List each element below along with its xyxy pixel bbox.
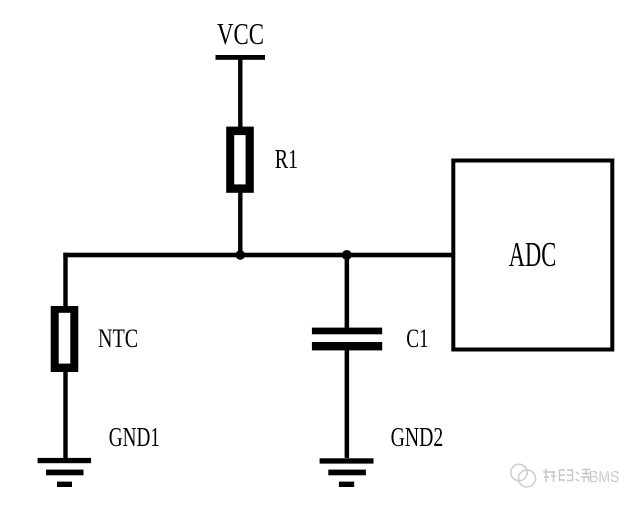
svg-text:ADC: ADC [509, 235, 557, 274]
ground GND2 [320, 458, 374, 487]
watermark logo icon [511, 464, 536, 487]
junction node B [342, 250, 352, 260]
svg-text:BMS: BMS [590, 468, 621, 485]
wire VCC to R1 [238, 57, 242, 130]
resistor R1 [226, 127, 254, 193]
wire R1 to node A [238, 192, 242, 256]
svg-text:GND2: GND2 [391, 421, 444, 452]
svg-text:GND1: GND1 [109, 421, 160, 452]
capacitor C1 [312, 328, 382, 351]
junction node A [236, 250, 246, 260]
wire C1 to GND2 [345, 350, 350, 458]
block ADC [453, 161, 612, 350]
resistor NTC [51, 306, 79, 372]
ground GND1 [38, 458, 92, 487]
watermark text 新能源BMS [543, 468, 621, 486]
wire main horizontal middle segment [240, 253, 346, 258]
svg-text:VCC: VCC [217, 16, 264, 51]
power symbol VCC bar [216, 55, 266, 60]
wire main horizontal left segment [63, 253, 240, 258]
wire node B to ADC [347, 253, 452, 258]
wire to NTC [63, 253, 67, 307]
svg-text:C1: C1 [406, 323, 428, 353]
wire node B to C1 [345, 255, 350, 328]
svg-text:NTC: NTC [98, 324, 138, 353]
wire NTC to GND1 [63, 371, 67, 458]
svg-text:R1: R1 [275, 144, 298, 174]
